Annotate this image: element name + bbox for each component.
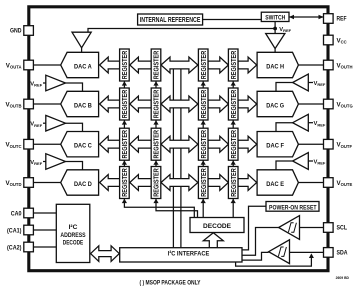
svg-text:( ) MSOP PACKAGE ONLY: ( ) MSOP PACKAGE ONLY: [140, 279, 202, 286]
svg-text:VREF: VREF: [314, 121, 326, 127]
svg-text:I²C INTERFACE: I²C INTERFACE: [168, 250, 210, 257]
wire DAC register E to DAC E: [238, 175, 257, 191]
pin VOUTB: [24, 99, 34, 109]
register input register C: [151, 128, 161, 160]
pin SDA: [324, 248, 334, 258]
wire load strobe into input register E: [201, 199, 206, 203]
svg-text:VREF: VREF: [314, 81, 326, 87]
wire register load lines left columns: [124, 81, 194, 218]
wire VREF label to buffer F: [308, 122, 313, 124]
pin VOUTH: [324, 60, 334, 70]
wire input register H to DAC register H: [208, 57, 228, 73]
svg-text:2609 BD: 2609 BD: [336, 276, 350, 280]
wire buffer F to DAC F: [276, 123, 293, 132]
pin VOUTC: [24, 139, 34, 149]
wire VOUTG: [297, 103, 324, 105]
DAC E: [257, 170, 298, 195]
op-amp reference buffer C: [46, 115, 66, 131]
register DAC register A: [120, 49, 130, 81]
pin CA1: [24, 225, 34, 235]
register input register F: [198, 128, 208, 160]
svg-text:DECODE: DECODE: [63, 239, 83, 246]
wire central data bus trunk: [172, 65, 174, 248]
schmitt buffer SDA: [269, 240, 290, 264]
svg-text:POWER-ON RESET: POWER-ON RESET: [269, 204, 317, 211]
pin VCC: [324, 35, 334, 45]
wire input register A to DAC register A: [130, 57, 151, 73]
wire address decode to I2C interface (bidirectional hollow arrow): [91, 246, 120, 262]
register DAC register H: [228, 49, 238, 81]
op-amp reference buffer H: [266, 34, 285, 49]
wire load strobe into input register G: [201, 120, 206, 124]
op-amp reference buffer D: [46, 154, 66, 170]
wire VREF label to buffer E: [308, 160, 313, 162]
wire CA2: [33, 246, 56, 248]
wire internal reference to switch: [203, 19, 262, 21]
register input register B: [151, 88, 161, 120]
wire power-on reset to I2C interface: [242, 206, 266, 250]
op-amp reference buffer E: [293, 153, 309, 170]
svg-text:SWITCH: SWITCH: [265, 14, 285, 21]
register input register E: [198, 167, 208, 199]
DAC B: [61, 91, 99, 116]
wire VOUTD: [33, 182, 62, 184]
register DAC register D: [120, 167, 130, 199]
svg-text:DAC F: DAC F: [266, 143, 284, 150]
svg-text:REGISTER: REGISTER: [199, 89, 208, 118]
wire input register D to DAC register D: [130, 175, 151, 191]
svg-text:REGISTER: REGISTER: [152, 89, 161, 118]
svg-text:DAC G: DAC G: [266, 102, 284, 109]
register DAC register F: [228, 128, 238, 160]
svg-text:DAC B: DAC B: [74, 102, 92, 109]
wire load strobe into DAC register G: [231, 120, 236, 124]
wire buffer H to DAC H: [274, 49, 276, 53]
wire VOUTF: [297, 143, 324, 145]
wire DAC register F to DAC F: [238, 136, 257, 152]
svg-text:DAC A: DAC A: [74, 63, 92, 70]
wire VOUTA: [33, 64, 62, 66]
wire DAC register G to DAC G: [238, 96, 257, 112]
wire VOUTC: [33, 143, 62, 145]
svg-text:REGISTER: REGISTER: [120, 89, 129, 118]
register DAC register C: [120, 128, 130, 160]
register input register H: [198, 49, 208, 81]
wire SCL pin to input buffer: [300, 227, 324, 229]
wire data bus branch row D/E: [161, 175, 198, 191]
wire I2C interface SDA output driver: [236, 255, 312, 267]
svg-text:SCL: SCL: [337, 225, 348, 232]
node VREF junction dot: [273, 27, 277, 31]
pin SCL: [324, 223, 334, 233]
svg-text:REGISTER: REGISTER: [152, 129, 161, 158]
wire buffer D to DAC D: [66, 162, 83, 170]
svg-text:DAC D: DAC D: [74, 181, 92, 188]
wire load strobe into DAC register H: [231, 81, 236, 85]
DAC A: [61, 52, 99, 77]
svg-text:DECODE: DECODE: [203, 223, 232, 230]
wire VOUTB: [33, 103, 62, 105]
register DAC register B: [120, 88, 130, 120]
wire load strobe into input register F: [201, 160, 206, 164]
svg-text:REGISTER: REGISTER: [152, 168, 161, 197]
wire input register E to DAC register E: [208, 175, 228, 191]
wire CA0: [33, 212, 56, 214]
svg-text:DAC H: DAC H: [266, 63, 284, 70]
register input register D: [151, 167, 161, 199]
wire load strobe into DAC register C: [122, 160, 127, 164]
op-amp reference buffer A: [72, 32, 91, 48]
pin VOUTD: [24, 178, 34, 188]
wire VREF label to buffer B: [43, 82, 46, 84]
wire load strobe into DAC register F: [231, 160, 236, 164]
wire VOUTH: [297, 64, 324, 66]
wire load strobe into DAC register E: [231, 199, 236, 203]
wire input register B to DAC register B: [130, 96, 151, 112]
I2C address decode block: [56, 204, 90, 262]
wire VREF label to buffer C: [43, 122, 46, 124]
svg-text:REGISTER: REGISTER: [199, 129, 208, 158]
wire register load lines right columns: [202, 81, 204, 218]
wire buffer E to DAC E: [276, 161, 293, 170]
pin GND: [24, 26, 34, 36]
wire load strobe into input register D: [153, 199, 158, 203]
svg-text:VREF: VREF: [30, 160, 42, 166]
op-amp reference buffer G: [293, 74, 309, 91]
wire input register F to DAC register F: [208, 136, 228, 152]
wire DAC register D to DAC D: [100, 175, 120, 191]
wire SCL buffer to I2C interface: [242, 228, 279, 256]
wire buffer C to DAC C: [66, 123, 83, 131]
svg-text:DAC E: DAC E: [266, 181, 284, 188]
wire switch to VREF node: [274, 22, 276, 34]
op-amp reference buffer B: [46, 75, 66, 91]
register DAC register G: [228, 88, 238, 120]
wire VREF label to buffer G: [308, 82, 313, 84]
wire VOUTE: [297, 182, 324, 184]
pin VOUTF: [324, 139, 334, 149]
wire buffer G to DAC G: [276, 83, 293, 92]
DAC G: [257, 91, 298, 116]
wire load strobe into input register A: [153, 81, 158, 85]
wire DAC register H to DAC H: [238, 57, 257, 73]
wire buffer A to DAC A: [81, 48, 83, 53]
wire load strobe into input register C: [153, 160, 158, 164]
wire VREF label to buffer D: [43, 161, 46, 163]
svg-text:REF: REF: [337, 15, 347, 22]
DAC H: [257, 52, 298, 77]
pin REF: [324, 14, 334, 24]
svg-text:ADDRESS: ADDRESS: [60, 232, 85, 239]
wire load strobe into input register B: [153, 120, 158, 124]
svg-text:VREF: VREF: [30, 122, 42, 128]
register input register A: [151, 49, 161, 81]
wire buffer B to DAC B: [66, 83, 83, 91]
wire data bus branch row B/G: [161, 96, 198, 112]
wire load strobe into input register H: [201, 81, 206, 85]
internal reference block: [138, 14, 203, 25]
op-amp reference buffer F: [293, 114, 309, 131]
svg-text:VREF: VREF: [30, 81, 42, 87]
svg-text:REGISTER: REGISTER: [199, 50, 208, 79]
DAC F: [257, 132, 298, 157]
svg-text:DAC C: DAC C: [74, 143, 92, 150]
svg-text:REGISTER: REGISTER: [120, 168, 129, 197]
wire data bus branch row C/F: [161, 136, 198, 152]
DAC D: [61, 170, 99, 195]
svg-text:REGISTER: REGISTER: [229, 50, 238, 79]
DAC C: [61, 132, 99, 157]
wire load strobe into DAC register A: [122, 81, 127, 85]
wire DAC register A to DAC A: [100, 57, 120, 73]
svg-text:SDA: SDA: [337, 250, 348, 257]
svg-text:INTERNAL REFERENCE: INTERNAL REFERENCE: [140, 17, 201, 24]
wire data bus branch row A/H: [161, 57, 198, 73]
svg-text:REGISTER: REGISTER: [199, 168, 208, 197]
register DAC register E: [228, 167, 238, 199]
switch block: [261, 12, 289, 21]
wire I2C interface to decode (hollow arrow): [203, 233, 223, 248]
svg-text:REGISTER: REGISTER: [120, 50, 129, 79]
svg-text:VREF: VREF: [279, 27, 291, 33]
pin CA2: [24, 242, 34, 252]
svg-text:GND: GND: [10, 28, 22, 35]
wire SDA buffer to I2C interface: [242, 252, 269, 260]
register input register G: [198, 88, 208, 120]
wire switch to REF pin (bidirectional): [289, 16, 324, 18]
svg-text:(CA1): (CA1): [7, 227, 22, 234]
wire input register G to DAC register G: [208, 96, 228, 112]
wire input register C to DAC register C: [130, 136, 151, 152]
wire VREF rail: [88, 29, 275, 33]
wire load strobe into DAC register B: [122, 120, 127, 124]
svg-text:REGISTER: REGISTER: [229, 89, 238, 118]
svg-text:REGISTER: REGISTER: [152, 50, 161, 79]
svg-text:(CA2): (CA2): [7, 244, 22, 251]
I2C interface block: [120, 248, 242, 262]
pin VOUTG: [324, 99, 334, 109]
wire CA1: [33, 229, 56, 231]
pin CA0: [24, 208, 34, 218]
schmitt buffer SCL: [279, 216, 300, 240]
wire SDA pin to input buffer: [290, 251, 324, 253]
svg-text:CA0: CA0: [11, 210, 22, 217]
svg-text:REGISTER: REGISTER: [229, 129, 238, 158]
svg-text:I²C: I²C: [69, 224, 78, 231]
pin VOUTE: [324, 178, 334, 188]
decode block: [190, 218, 244, 233]
chip outline border: [29, 7, 328, 271]
wire load strobe into DAC register D: [122, 199, 127, 203]
svg-text:REGISTER: REGISTER: [229, 168, 238, 197]
wire DAC register B to DAC B: [100, 96, 120, 112]
svg-text:VREF: VREF: [314, 159, 326, 165]
power-on reset block: [266, 202, 319, 212]
wire DAC register C to DAC C: [100, 136, 120, 152]
svg-text:REGISTER: REGISTER: [120, 129, 129, 158]
pin VOUTA: [24, 60, 34, 70]
